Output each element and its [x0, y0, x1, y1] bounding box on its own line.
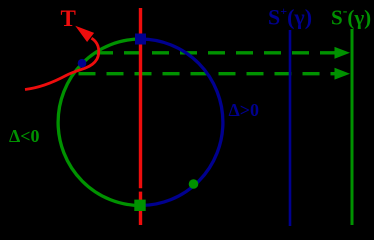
blue dot on circle / T crossing	[78, 59, 87, 68]
green square at bottom of circle	[134, 200, 145, 211]
svg-text:S-(γ): S-(γ)	[331, 4, 371, 30]
svg-text:Δ>0: Δ>0	[229, 100, 260, 120]
dashed arrow lower	[79, 68, 351, 80]
blue vertical line S+(gamma)	[289, 30, 292, 226]
red vertical line (upper segment)	[139, 8, 142, 188]
circle gamma: blue right half	[141, 39, 223, 206]
red trajectory curve T	[25, 38, 99, 89]
red vertical line (lower segment)	[139, 192, 142, 225]
dashed arrow upper (gamma top mapping)	[96, 47, 350, 59]
red arrowhead of T	[77, 27, 93, 41]
blue square at top of circle	[135, 34, 146, 45]
svg-text:S+(γ): S+(γ)	[268, 4, 312, 30]
green dot on lower right arc	[189, 179, 199, 189]
svg-text:Δ<0: Δ<0	[9, 126, 40, 146]
circle gamma: green left half	[58, 39, 140, 206]
svg-text:T: T	[61, 6, 76, 31]
green vertical line S-(gamma)	[351, 29, 354, 225]
